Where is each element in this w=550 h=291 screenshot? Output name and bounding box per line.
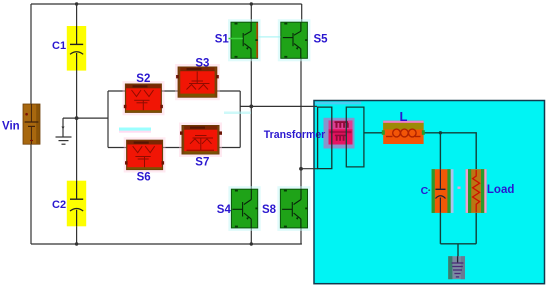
capacitor C xyxy=(432,169,454,213)
node mark between C and Load xyxy=(458,187,461,189)
wire C bottom xyxy=(439,213,441,244)
wire left rail xyxy=(30,4,32,244)
wire S2 to S3 xyxy=(161,90,178,92)
switch module S6 xyxy=(124,137,166,172)
wire S6 to S7 xyxy=(163,147,183,149)
wire bridge left rail xyxy=(107,91,109,148)
wire inductor to load branch xyxy=(424,133,477,169)
svg-text:S6: S6 xyxy=(137,172,151,184)
wire S3 out xyxy=(217,90,240,92)
wire rail to primary bottom xyxy=(301,168,318,170)
port mark right of C label xyxy=(428,190,430,191)
svg-text:Load: Load xyxy=(487,184,514,196)
wire C branch drop xyxy=(439,133,441,169)
wire into S6 xyxy=(108,147,127,149)
switch S4 xyxy=(228,186,260,231)
wire C1-C2 rail lower xyxy=(76,212,78,245)
svg-text:Vin: Vin xyxy=(2,121,20,133)
wire bottom join xyxy=(440,243,476,245)
switch S5 xyxy=(278,19,311,61)
secondary-side subcircuit box xyxy=(314,101,545,284)
artifact streak S1-S5 xyxy=(259,36,281,38)
svg-text:C2: C2 xyxy=(52,199,66,211)
wire ground stem xyxy=(62,118,64,137)
junction top C1 xyxy=(75,2,78,5)
switch module S2 xyxy=(123,81,165,115)
junction transformer bottom xyxy=(299,167,303,171)
junction bottom S4 xyxy=(250,242,253,245)
wire S7 out xyxy=(219,147,240,149)
ground xyxy=(56,127,72,145)
transformer T1 xyxy=(324,118,355,149)
junction bridge output xyxy=(249,105,253,109)
wire S1 rail top xyxy=(250,4,252,22)
ground block xyxy=(448,256,465,279)
wire top bus xyxy=(31,3,302,5)
svg-text:S2: S2 xyxy=(136,73,150,85)
svg-text:S7: S7 xyxy=(195,156,209,168)
junction top S1 xyxy=(250,2,253,5)
wire bridge right rail xyxy=(239,91,241,148)
switch module S7 xyxy=(179,123,222,158)
svg-text:S8: S8 xyxy=(262,204,277,216)
wire bottom bus xyxy=(31,243,302,245)
junction C branch xyxy=(439,131,442,134)
switch S8 xyxy=(277,186,310,231)
wire S1-S4 rail xyxy=(250,58,252,189)
wire S4 rail bottom xyxy=(250,228,252,244)
wire into S2 xyxy=(108,90,126,92)
svg-text:L: L xyxy=(400,109,408,124)
svg-text:S3: S3 xyxy=(195,58,209,70)
artifact streak near bridge output xyxy=(224,112,251,115)
junction midpoint xyxy=(75,116,79,120)
wire primary loop xyxy=(318,107,332,169)
switch module S3 xyxy=(175,64,220,100)
wire S8 rail bottom xyxy=(300,228,302,244)
capacitor C2 xyxy=(67,181,86,227)
wire S5 rail top xyxy=(301,4,303,22)
svg-text:C1: C1 xyxy=(52,40,66,52)
junction bottom C2 xyxy=(75,242,78,245)
svg-text:Transformer: Transformer xyxy=(264,129,326,141)
capacitor C1 xyxy=(67,26,86,71)
wire ground drop xyxy=(457,244,459,257)
wire midpoint to bridge xyxy=(63,117,108,119)
svg-text:S5: S5 xyxy=(314,33,329,45)
resistor Load xyxy=(466,169,487,213)
wire C1-C2 rail upper xyxy=(76,4,78,44)
source Vin xyxy=(23,104,40,144)
inductor L xyxy=(382,121,425,144)
wire C1-C2 rail middle xyxy=(76,53,78,200)
svg-text:S4: S4 xyxy=(217,204,232,216)
svg-text:S1: S1 xyxy=(215,33,230,45)
artifact streak above S6 xyxy=(119,128,151,131)
wire to inductor xyxy=(364,132,383,134)
switch S1 xyxy=(228,19,261,61)
wire bridge output to transformer xyxy=(240,105,317,107)
wire secondary loop xyxy=(346,107,364,167)
wire S5-S8 rail xyxy=(300,58,302,189)
svg-text:C: C xyxy=(421,185,429,197)
wire load bottom xyxy=(475,213,477,244)
